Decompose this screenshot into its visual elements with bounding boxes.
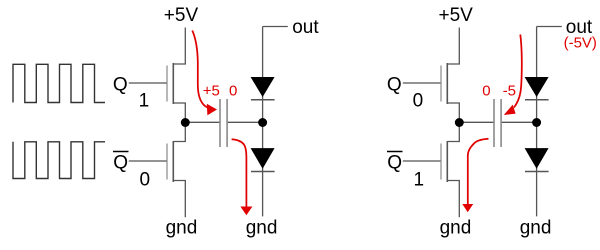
svg-text:+5V: +5V bbox=[439, 5, 474, 26]
svg-text:1: 1 bbox=[414, 170, 425, 191]
svg-text:Q: Q bbox=[113, 74, 128, 95]
svg-text:gnd: gnd bbox=[166, 218, 198, 239]
svg-text:gnd: gnd bbox=[440, 218, 472, 239]
svg-text:+5V: +5V bbox=[164, 5, 199, 26]
svg-text:Q: Q bbox=[387, 153, 402, 174]
svg-text:Q: Q bbox=[387, 74, 402, 95]
svg-text:0: 0 bbox=[140, 170, 151, 191]
svg-text:+5: +5 bbox=[203, 82, 220, 99]
svg-text:Q: Q bbox=[113, 153, 128, 174]
svg-text:0: 0 bbox=[482, 82, 490, 99]
svg-text:1: 1 bbox=[139, 90, 150, 111]
svg-text:0: 0 bbox=[229, 82, 237, 99]
svg-text:gnd: gnd bbox=[246, 218, 278, 239]
svg-text:gnd: gnd bbox=[520, 218, 552, 239]
svg-text:out: out bbox=[292, 17, 319, 38]
svg-text:(-5V): (-5V) bbox=[564, 35, 597, 52]
svg-text:-5: -5 bbox=[503, 82, 516, 99]
svg-text:0: 0 bbox=[413, 90, 424, 111]
